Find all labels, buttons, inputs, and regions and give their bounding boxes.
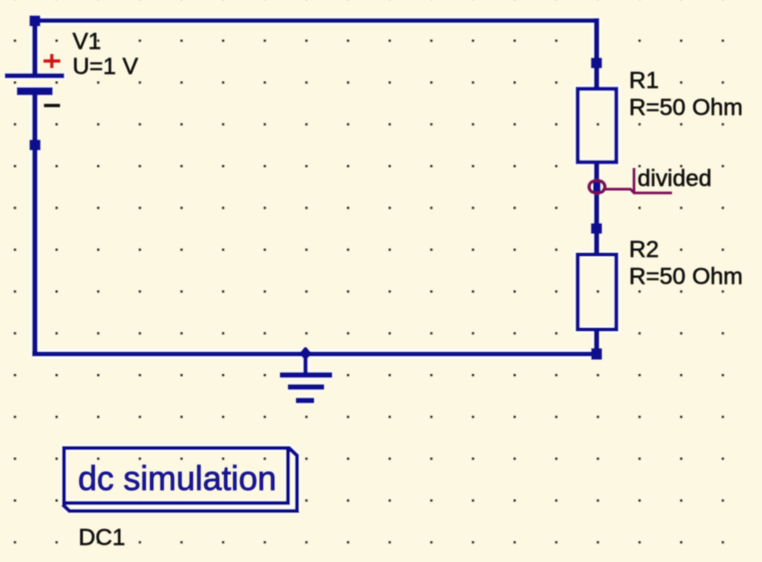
svg-text:R2: R2 (629, 236, 659, 262)
svg-text:U=1 V: U=1 V (73, 53, 139, 79)
svg-text:R=50 Ohm: R=50 Ohm (629, 94, 743, 120)
svg-text:DC1: DC1 (79, 524, 126, 550)
svg-text:R=50 Ohm: R=50 Ohm (629, 263, 743, 289)
svg-text:R1: R1 (629, 67, 659, 93)
svg-text:V1: V1 (73, 28, 102, 54)
svg-text:divided: divided (638, 165, 712, 191)
svg-text:dc simulation: dc simulation (78, 460, 276, 498)
